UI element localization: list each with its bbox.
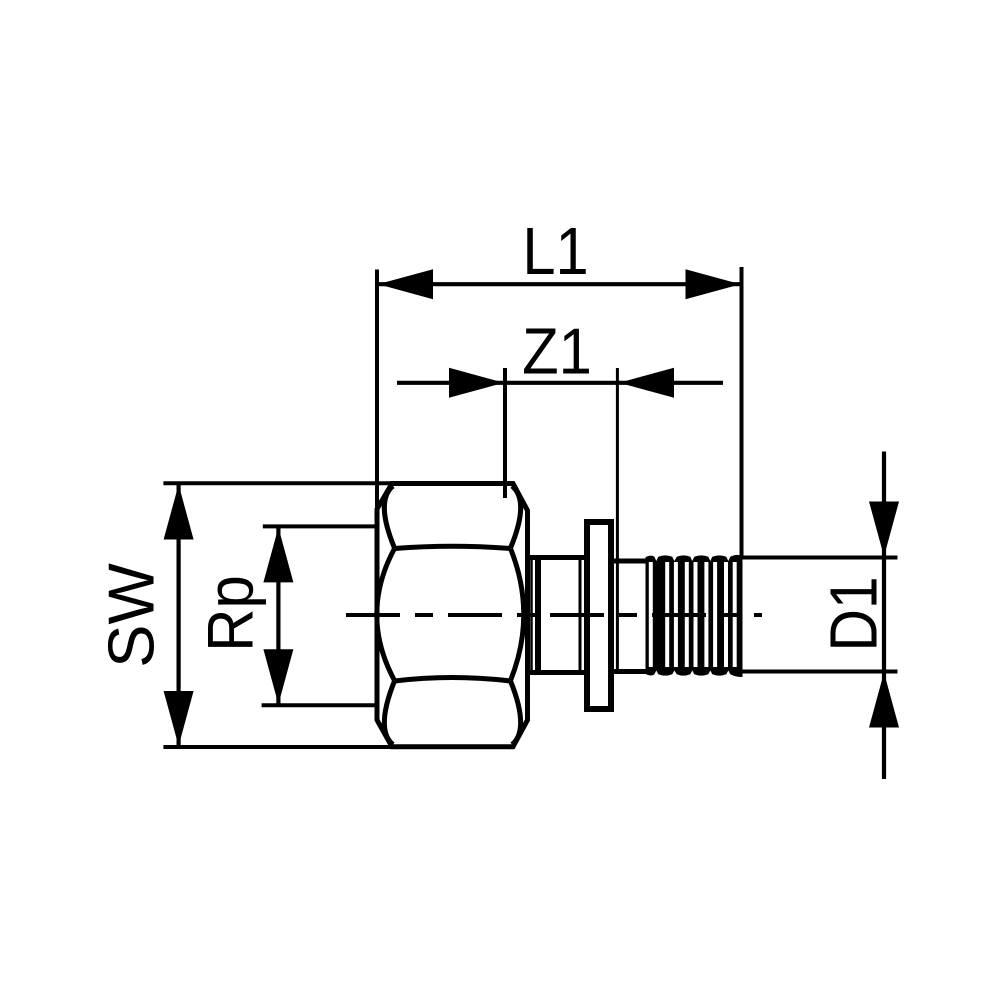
svg-text:SW: SW (95, 563, 168, 668)
dimension D1 label (817, 576, 891, 651)
dimension Z1 right extension line (616, 368, 619, 669)
svg-text:D1: D1 (817, 576, 891, 651)
svg-text:Rp: Rp (194, 575, 267, 651)
threaded spigot body (646, 554, 743, 677)
dimension Rp top extension line (263, 524, 377, 528)
dimension L1 line (377, 282, 742, 286)
dimension D1 top extension line (742, 556, 898, 560)
dimension Z1 line (397, 381, 723, 385)
neck sleeve edge line near nut (535, 558, 541, 672)
svg-text:L1: L1 (522, 215, 588, 289)
hex nut upper face boundary line (395, 546, 511, 548)
svg-text:Z1: Z1 (522, 315, 592, 388)
dimension Rp bottom extension line (262, 703, 377, 707)
dimension L1 right extension line (740, 267, 744, 558)
dimension SW bottom arrowhead (164, 691, 194, 746)
dimension L1 right arrowhead (686, 269, 741, 299)
neck sleeve end-cap line at nut (530, 558, 533, 672)
dimension SW top extension line (163, 481, 392, 485)
dimension Rp top arrowhead (263, 527, 293, 582)
dimension Z1 left arrowhead (449, 368, 504, 398)
hex nut body silhouette (377, 484, 528, 747)
dimension SW label (95, 563, 168, 668)
thread relief white gaps (649, 562, 737, 667)
hex nut top face chamfer arcs (384, 486, 520, 548)
collar flange disc (587, 522, 611, 709)
dimension SW top arrowhead (164, 485, 194, 540)
dimension SW bottom extension line (163, 745, 392, 749)
dimension Rp line (276, 527, 280, 705)
hex nut lower face boundary line (395, 678, 511, 682)
dimension Z1 right arrowhead (619, 368, 674, 398)
dimension D1 top arrowhead (869, 502, 899, 557)
dimension L1 left extension line (375, 270, 379, 513)
hex nut middle face side arcs (377, 549, 524, 681)
dimension L1 label (522, 215, 588, 289)
dimension Rp bottom arrowhead (263, 649, 293, 704)
dimension SW line (177, 484, 181, 747)
neck groove between collar and thread (613, 561, 648, 672)
dimension D1 line (882, 452, 886, 780)
dimension D1 bottom arrowhead (869, 673, 899, 728)
neck sleeve between nut and collar (528, 558, 586, 673)
dimension Rp label (194, 575, 267, 651)
dimension D1 bottom extension line (742, 670, 898, 674)
dimension Z1 label (522, 315, 592, 388)
hex nut bottom face chamfer arcs (384, 681, 520, 745)
centerline (dash-dot axis) (346, 613, 762, 617)
dimension L1 left arrowhead (378, 269, 433, 299)
dimension Z1 left extension line (503, 368, 507, 498)
neck sleeve edge line near collar (579, 559, 582, 671)
